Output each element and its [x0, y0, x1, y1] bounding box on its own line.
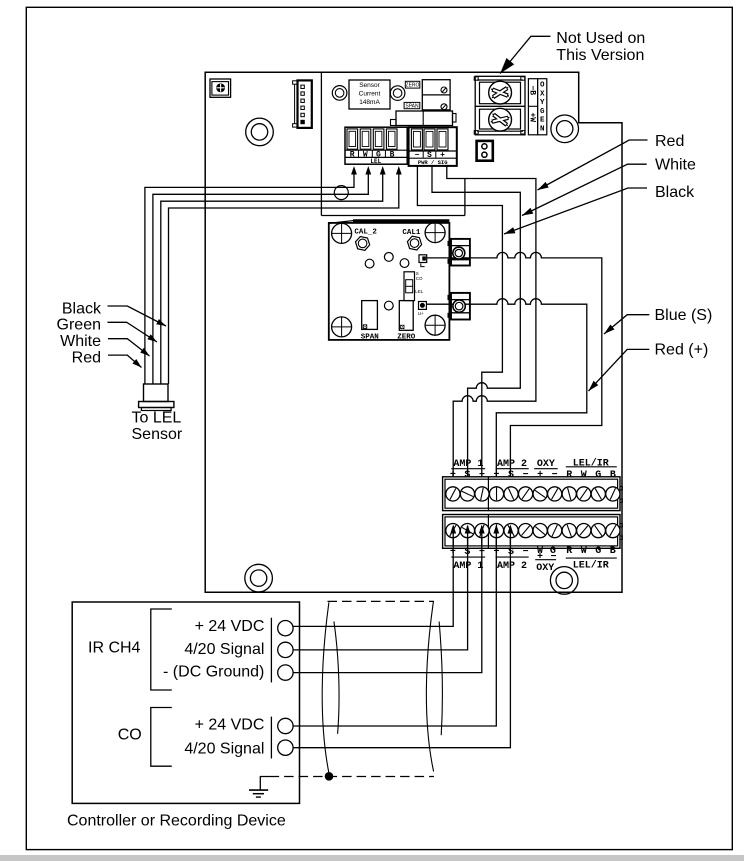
svg-text:G: G: [595, 470, 601, 481]
svg-text:Red: Red: [72, 349, 101, 366]
svg-text:+ 24 VDC: + 24 VDC: [195, 618, 265, 635]
svg-text:White: White: [60, 333, 101, 350]
svg-text:CO: CO: [416, 276, 423, 281]
svg-text:CAL_2: CAL_2: [354, 228, 377, 236]
svg-text:SPAN: SPAN: [361, 334, 379, 342]
svg-text:To LEL: To LEL: [132, 410, 182, 427]
svg-text:ZERO: ZERO: [397, 334, 416, 342]
svg-text:Black: Black: [655, 184, 695, 201]
svg-text:Sensor: Sensor: [359, 82, 380, 89]
svg-text:+: +: [494, 470, 500, 481]
svg-text:O: O: [540, 82, 545, 90]
svg-text:E: E: [540, 117, 545, 125]
svg-text:Current: Current: [359, 91, 381, 98]
svg-text:B: B: [390, 150, 395, 159]
svg-text:+: +: [450, 470, 456, 481]
svg-text:Black: Black: [62, 300, 102, 317]
svg-text:+: +: [537, 552, 543, 563]
svg-text:−: −: [523, 470, 529, 481]
svg-text:+: +: [537, 470, 543, 481]
svg-text:OXY: OXY: [536, 563, 554, 574]
svg-text:SPAN: SPAN: [405, 104, 419, 110]
svg-text:White: White: [655, 157, 696, 174]
svg-text:R: R: [350, 150, 355, 159]
svg-text:+ 24 VDC: + 24 VDC: [195, 717, 265, 734]
svg-text:R: R: [566, 546, 572, 557]
svg-text:B: B: [610, 470, 616, 481]
svg-text:W: W: [363, 150, 368, 159]
svg-text:S: S: [508, 470, 514, 481]
svg-text:S: S: [464, 470, 470, 481]
svg-text:G: G: [540, 108, 545, 116]
svg-text:148mA: 148mA: [359, 99, 380, 106]
svg-text:G: G: [595, 546, 601, 557]
svg-text:AMP 2: AMP 2: [497, 561, 527, 572]
svg-text:−: −: [523, 547, 529, 558]
svg-text:+W: +W: [527, 113, 536, 123]
svg-text:4/20 Signal: 4/20 Signal: [184, 740, 264, 757]
svg-text:CO: CO: [118, 727, 142, 744]
svg-text:Sensor: Sensor: [132, 426, 183, 443]
svg-text:- (DC Ground): - (DC Ground): [163, 664, 264, 681]
svg-text:+: +: [494, 547, 500, 558]
svg-text:−B: −B: [527, 86, 536, 96]
svg-text:W: W: [581, 470, 587, 481]
svg-text:ZERO: ZERO: [406, 83, 420, 89]
svg-text:−: −: [479, 547, 485, 558]
svg-text:W: W: [581, 546, 587, 557]
svg-text:LEL/IR: LEL/IR: [573, 559, 609, 571]
svg-text:R: R: [566, 470, 572, 481]
svg-text:−: −: [550, 552, 556, 563]
svg-text:Blue (S): Blue (S): [655, 307, 713, 324]
svg-text:AMP 1: AMP 1: [453, 561, 483, 572]
svg-text:PWR / SIG: PWR / SIG: [418, 159, 448, 166]
svg-text:Not Used on: Not Used on: [556, 30, 645, 47]
svg-text:Controller or Recording Device: Controller or Recording Device: [67, 813, 286, 830]
svg-text:+: +: [450, 547, 456, 558]
svg-text:−: −: [479, 470, 485, 481]
svg-text:IR CH4: IR CH4: [88, 640, 141, 657]
svg-text:LEL/IR: LEL/IR: [573, 458, 609, 470]
svg-text:X: X: [540, 90, 545, 98]
svg-text:This Version: This Version: [556, 47, 644, 64]
svg-text:−: −: [552, 470, 558, 481]
svg-text:S: S: [508, 547, 514, 558]
svg-text:CAL1: CAL1: [402, 229, 421, 237]
svg-text:N: N: [540, 126, 545, 134]
svg-text:S: S: [464, 547, 470, 558]
svg-text:LEL: LEL: [415, 289, 424, 294]
svg-text:4/20 Signal: 4/20 Signal: [184, 641, 264, 658]
svg-text:Red: Red: [655, 133, 684, 150]
svg-text:B: B: [610, 546, 616, 557]
svg-text:LEL: LEL: [370, 158, 381, 165]
svg-text:Red (+): Red (+): [655, 342, 709, 359]
svg-text:Green: Green: [57, 317, 101, 334]
svg-text:U+: U+: [418, 311, 424, 316]
svg-text:Y: Y: [540, 99, 545, 107]
